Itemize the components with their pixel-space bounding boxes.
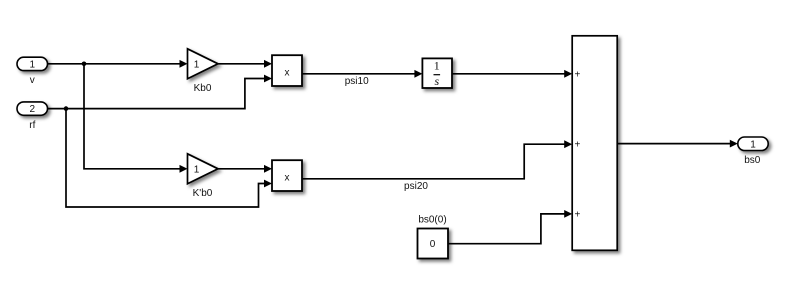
svg-text:+: + <box>575 140 581 151</box>
svg-text:1: 1 <box>194 165 200 176</box>
svg-text:psi20: psi20 <box>404 181 428 192</box>
svg-text:Kb0: Kb0 <box>194 83 212 94</box>
outport 1 <box>738 137 768 151</box>
wire psi20 from product X2 to sum input 2 <box>302 140 572 179</box>
svg-text:0: 0 <box>430 239 436 250</box>
wire from gain K'b0 to product X2 <box>218 165 272 173</box>
wire branch from node on inport 1 wire down to gain K'b0 <box>84 64 188 173</box>
svg-text:+: + <box>575 209 581 220</box>
gain Kb0 <box>188 49 219 79</box>
svg-text:1: 1 <box>434 58 440 72</box>
svg-text:x: x <box>285 67 290 78</box>
wire from inport 1 to gain Kb0 <box>48 60 188 68</box>
wire from sum output to outport 1 <box>617 140 738 148</box>
gain K'b0 <box>188 154 219 184</box>
svg-text:rf: rf <box>29 120 35 131</box>
wire from gain Kb0 to product X1 <box>218 60 272 68</box>
inport 1 <box>17 57 48 70</box>
inport 2 <box>17 102 48 115</box>
product X2 <box>272 160 302 191</box>
constant bs0(0) <box>418 229 449 259</box>
junction node on inport 1 wire <box>82 62 87 67</box>
integrator 1/s <box>422 58 452 88</box>
svg-text:1: 1 <box>750 140 756 151</box>
svg-text:K'b0: K'b0 <box>193 188 213 199</box>
svg-text:bs0(0): bs0(0) <box>418 215 446 226</box>
svg-text:bs0: bs0 <box>744 155 761 166</box>
wire psi10 from product X1 to integrator <box>302 70 422 78</box>
svg-text:+: + <box>575 69 581 80</box>
svg-text:1: 1 <box>194 60 200 71</box>
wire from inport 2 to product X1 second input <box>48 75 273 109</box>
wire from constant bs0(0) to sum input 3 <box>448 210 572 244</box>
svg-text:1: 1 <box>30 59 36 70</box>
svg-text:v: v <box>30 75 35 86</box>
sum block <box>572 36 617 251</box>
svg-text:x: x <box>285 172 290 183</box>
wire from integrator to sum input 1 <box>452 70 572 78</box>
svg-text:2: 2 <box>30 104 36 115</box>
product X1 <box>272 55 302 86</box>
junction node on inport 2 wire <box>64 106 69 111</box>
svg-text:s: s <box>434 74 439 88</box>
wire branch from node on inport 2 wire to product X2 second input <box>66 109 272 207</box>
svg-text:psi10: psi10 <box>345 76 369 87</box>
